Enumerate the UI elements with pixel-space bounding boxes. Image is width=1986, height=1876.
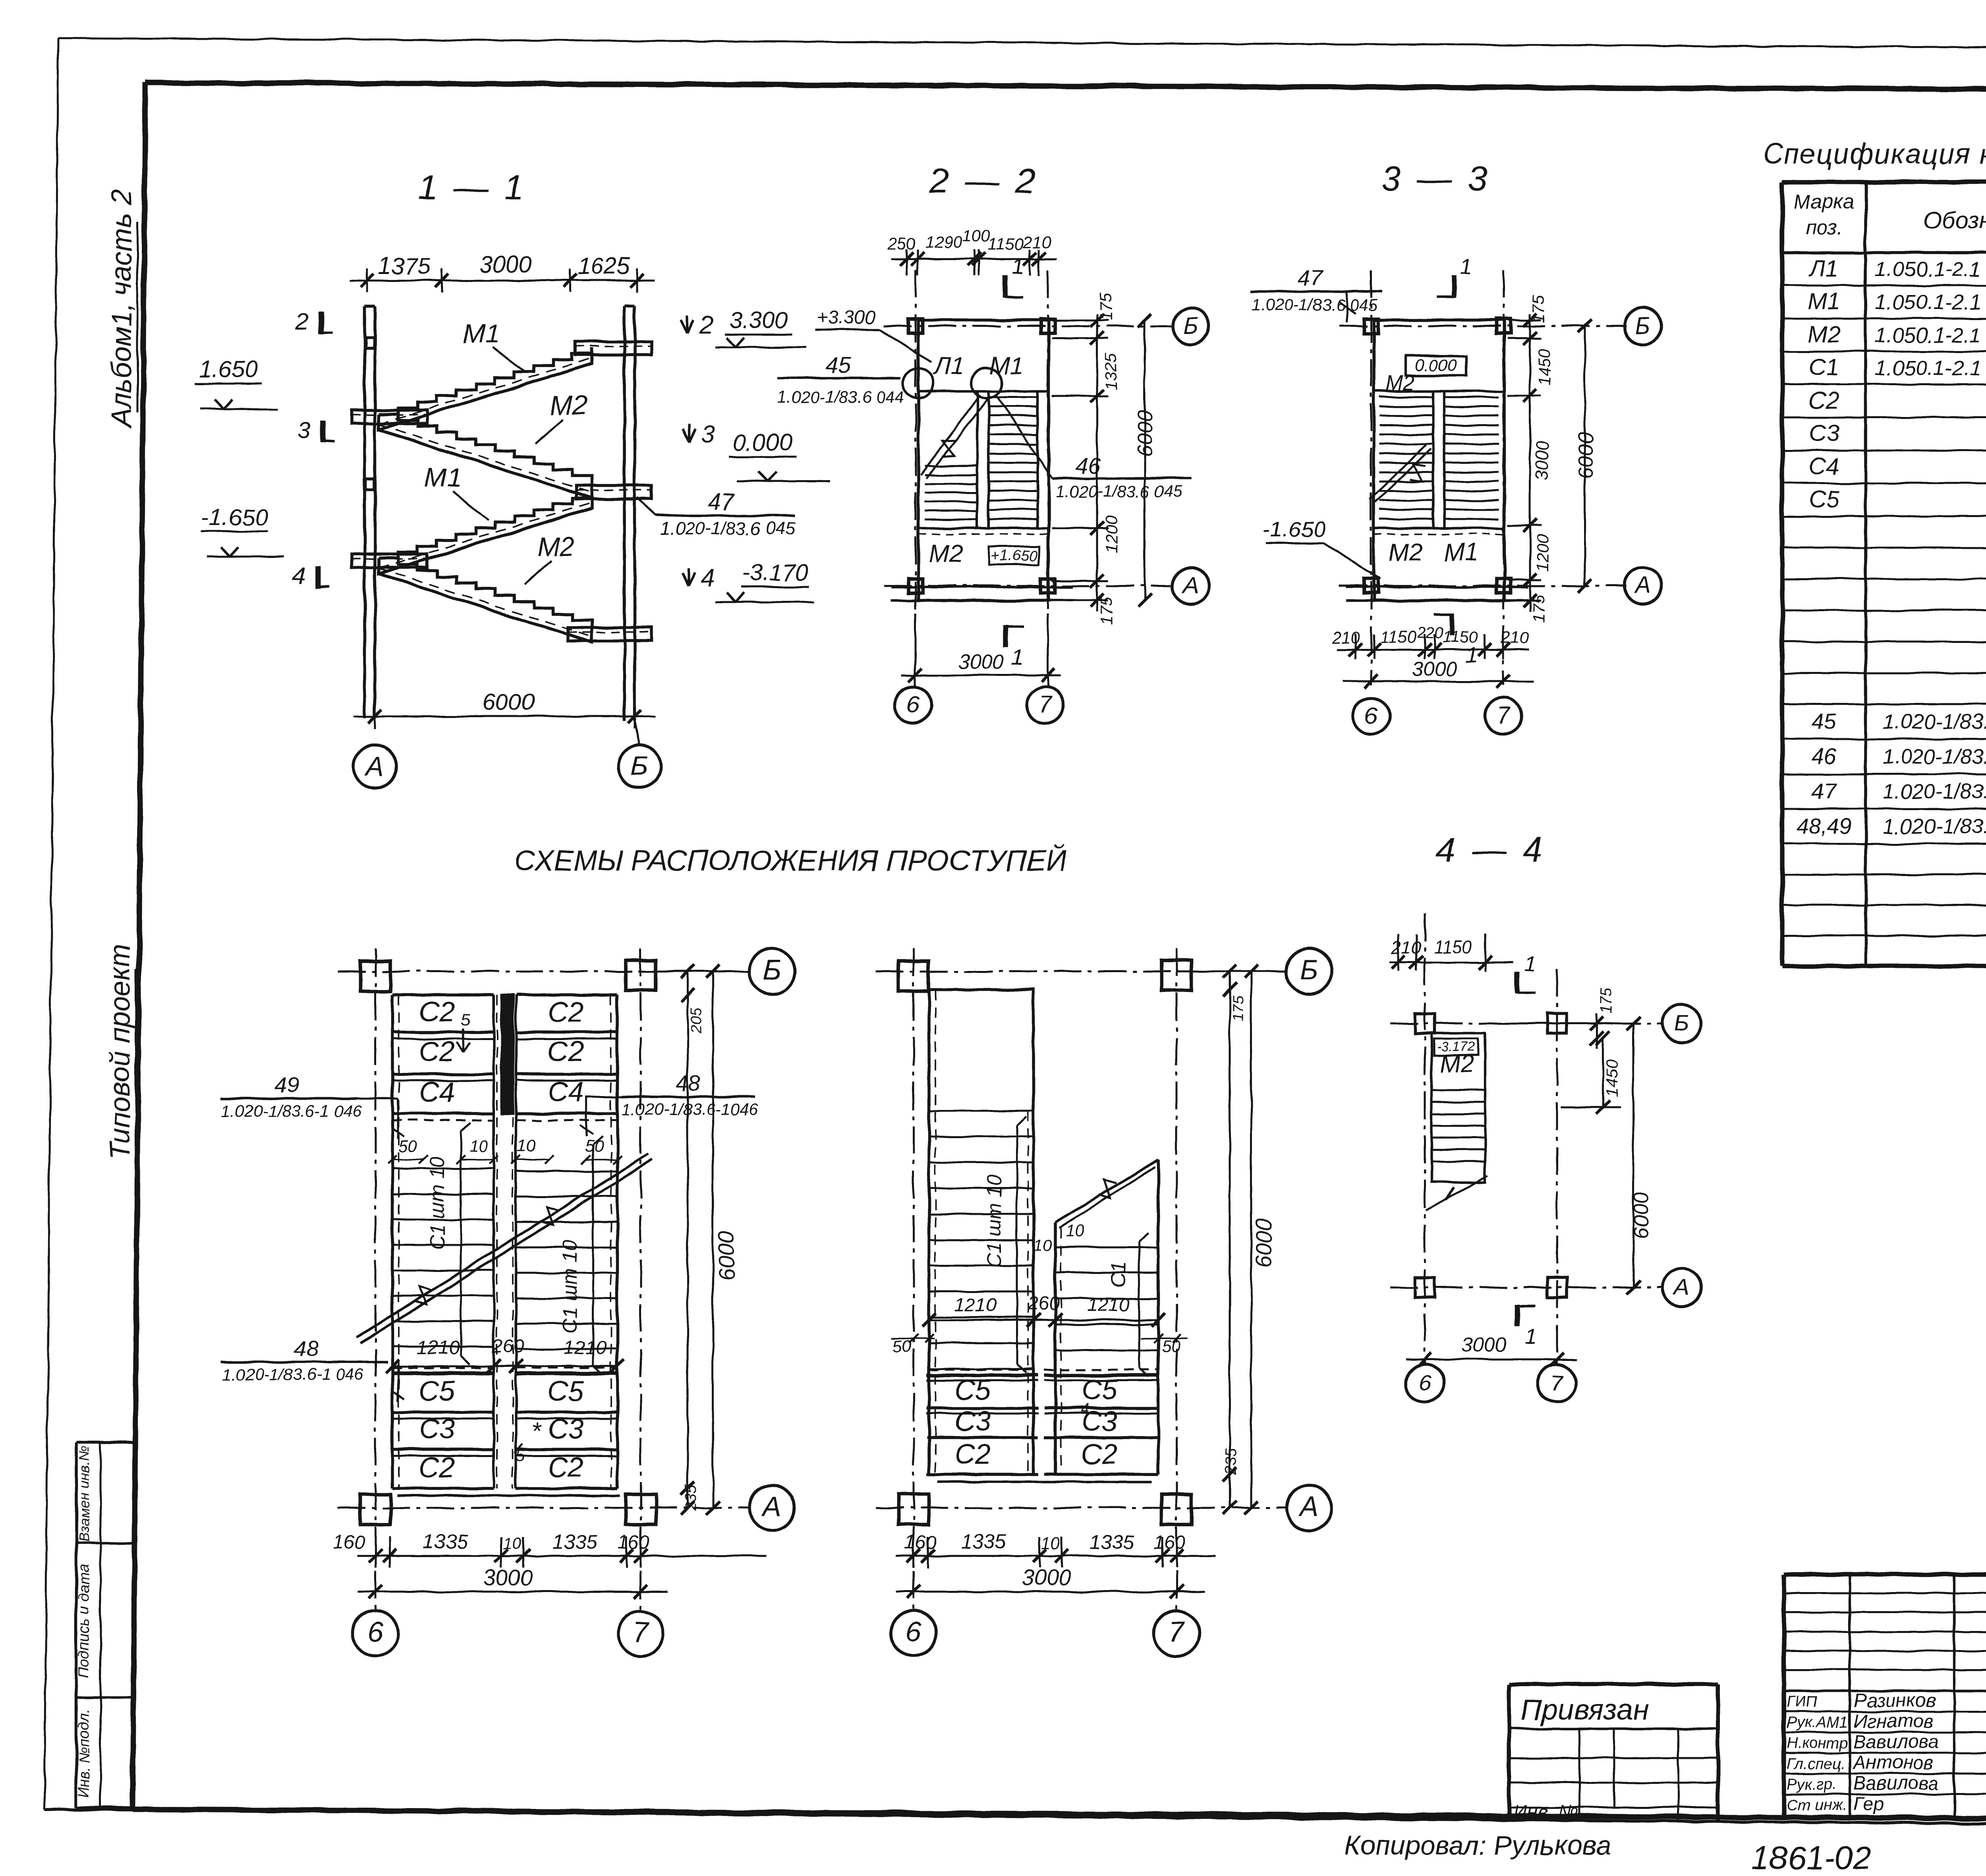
svg-text:1150: 1150 bbox=[1442, 627, 1478, 646]
svg-text:210: 210 bbox=[1331, 628, 1360, 647]
svg-text:1.050.1-2.1 05. 0.000: 1.050.1-2.1 05. 0.000 bbox=[1875, 291, 1986, 314]
svg-text:Разинков: Разинков bbox=[1853, 1690, 1936, 1711]
svg-text:6: 6 bbox=[907, 691, 920, 718]
svg-text:1.020-1/83.6 044: 1.020-1/83.6 044 bbox=[778, 388, 904, 406]
svg-text:С2: С2 bbox=[1082, 1439, 1118, 1470]
svg-text:Копировал: Рулькова: Копировал: Рулькова bbox=[1345, 1830, 1611, 1861]
svg-text:10: 10 bbox=[1066, 1222, 1084, 1240]
svg-text:6: 6 bbox=[1418, 1370, 1431, 1395]
svg-text:4: 4 bbox=[292, 563, 305, 589]
svg-text:ГИП: ГИП bbox=[1787, 1693, 1818, 1710]
svg-text:1210: 1210 bbox=[954, 1295, 997, 1316]
svg-text:А: А bbox=[1182, 572, 1198, 598]
svg-text:Вавилова: Вавилова bbox=[1853, 1731, 1939, 1752]
svg-text:6000: 6000 bbox=[1251, 1218, 1276, 1268]
svg-text:175: 175 bbox=[1529, 594, 1548, 622]
svg-text:Гл.спец.: Гл.спец. bbox=[1787, 1755, 1845, 1772]
svg-text:М2: М2 bbox=[550, 390, 587, 421]
svg-text:250: 250 bbox=[887, 234, 916, 253]
svg-text:СХЕМЫ РАСПОЛОЖЕНИЯ ПРОСТУПЕ: СХЕМЫ РАСПОЛОЖЕНИЯ ПРОСТУПЕЙ bbox=[514, 844, 1067, 877]
svg-text:С4: С4 bbox=[419, 1077, 455, 1108]
svg-text:поз.: поз. bbox=[1805, 216, 1843, 239]
svg-text:С4: С4 bbox=[548, 1077, 584, 1108]
svg-text:1.020-1/83.6-1046: 1.020-1/83.6-1046 bbox=[622, 1100, 758, 1119]
svg-text:Н.контр.: Н.контр. bbox=[1787, 1735, 1852, 1752]
svg-text:50: 50 bbox=[1162, 1337, 1180, 1355]
svg-text:1210: 1210 bbox=[1088, 1295, 1130, 1316]
svg-text:М1: М1 bbox=[989, 352, 1024, 380]
svg-text:7: 7 bbox=[633, 1616, 649, 1648]
svg-text:1.020-1/83.6 045: 1.020-1/83.6 045 bbox=[660, 518, 796, 538]
svg-text:С2: С2 bbox=[955, 1439, 991, 1470]
svg-text:А: А bbox=[1298, 1491, 1318, 1522]
svg-text:3000: 3000 bbox=[483, 1565, 533, 1590]
svg-text:Л1: Л1 bbox=[933, 352, 965, 380]
svg-text:4: 4 bbox=[701, 565, 714, 592]
svg-text:+3.300: +3.300 bbox=[817, 307, 875, 328]
svg-text:Подпись и дата: Подпись и дата bbox=[76, 1564, 93, 1678]
svg-text:6000: 6000 bbox=[714, 1231, 739, 1281]
svg-text:Марка: Марка bbox=[1794, 190, 1854, 213]
svg-text:Спецификация к схеме рас: Спецификация к схеме расположения лестни… bbox=[1763, 139, 1986, 170]
svg-text:М2: М2 bbox=[1385, 371, 1415, 395]
svg-text:1.020-1/83.6-1 084: 1.020-1/83.6-1 084 bbox=[1883, 710, 1986, 733]
svg-text:Б: Б bbox=[631, 751, 648, 781]
svg-text:3000: 3000 bbox=[1532, 441, 1552, 481]
svg-text:1.050.1-2.1 17.0 00.0-02: 1.050.1-2.1 17.0 00.0-02 bbox=[1875, 258, 1986, 281]
svg-text:С1 шт 10: С1 шт 10 bbox=[558, 1240, 581, 1333]
svg-text:45: 45 bbox=[1812, 708, 1837, 733]
svg-text:Инв. №: Инв. № bbox=[1513, 1801, 1578, 1822]
svg-text:7: 7 bbox=[1497, 703, 1511, 729]
svg-text:1150: 1150 bbox=[1380, 627, 1416, 646]
svg-text:А: А bbox=[364, 751, 384, 781]
svg-text:210: 210 bbox=[1501, 628, 1529, 647]
svg-text:-1.650: -1.650 bbox=[201, 504, 267, 530]
svg-text:3000: 3000 bbox=[1022, 1565, 1071, 1590]
svg-text:1150: 1150 bbox=[1434, 937, 1472, 957]
svg-text:1335: 1335 bbox=[1090, 1531, 1135, 1553]
svg-text:М2: М2 bbox=[1808, 321, 1840, 347]
svg-text:1.020-1/83.6-1 084: 1.020-1/83.6-1 084 bbox=[1883, 745, 1986, 768]
svg-text:3 — 3: 3 — 3 bbox=[1381, 159, 1491, 198]
svg-text:1200: 1200 bbox=[1533, 534, 1552, 571]
svg-text:48,49: 48,49 bbox=[1796, 813, 1852, 838]
svg-text:1335: 1335 bbox=[961, 1531, 1006, 1553]
svg-text:4 — 4: 4 — 4 bbox=[1436, 830, 1546, 869]
svg-text:Альбом1, часть 2: Альбом1, часть 2 bbox=[106, 189, 137, 429]
svg-text:1.020-1/83.6-1 084: 1.020-1/83.6-1 084 bbox=[1883, 780, 1986, 803]
svg-text:1.020-1/83.6 045: 1.020-1/83.6 045 bbox=[1251, 295, 1377, 314]
svg-text:1861-02: 1861-02 bbox=[1752, 1840, 1871, 1876]
svg-text:С3: С3 bbox=[955, 1406, 991, 1437]
svg-text:100: 100 bbox=[962, 226, 991, 245]
svg-text:С3: С3 bbox=[1809, 420, 1839, 446]
svg-text:1335: 1335 bbox=[552, 1531, 597, 1553]
svg-text:1.020-1/83.6-1 084: 1.020-1/83.6-1 084 bbox=[1883, 815, 1986, 838]
svg-text:М2: М2 bbox=[1389, 539, 1423, 566]
svg-text:Л1: Л1 bbox=[1808, 255, 1838, 282]
svg-text:0.000: 0.000 bbox=[1415, 356, 1457, 374]
svg-text:Типовой проект: Типовой проект bbox=[104, 944, 136, 1160]
svg-text:М2: М2 bbox=[929, 540, 963, 567]
svg-text:Вавилова: Вавилова bbox=[1853, 1773, 1939, 1794]
svg-text:М1: М1 bbox=[1808, 288, 1840, 315]
svg-text:160: 160 bbox=[618, 1532, 649, 1553]
svg-text:С2: С2 bbox=[419, 996, 455, 1028]
svg-text:260: 260 bbox=[492, 1336, 524, 1357]
svg-text:220: 220 bbox=[1416, 624, 1443, 641]
svg-text:2: 2 bbox=[295, 309, 309, 335]
svg-text:1150: 1150 bbox=[988, 234, 1024, 253]
svg-text:1625: 1625 bbox=[578, 253, 630, 279]
svg-text:4: 4 bbox=[1080, 1401, 1089, 1418]
svg-text:10: 10 bbox=[503, 1534, 522, 1552]
svg-text:С2: С2 bbox=[548, 1452, 584, 1483]
svg-text:1450: 1450 bbox=[1602, 1060, 1621, 1097]
svg-text:Инв. №подл.: Инв. №подл. bbox=[76, 1708, 93, 1798]
svg-text:М2: М2 bbox=[1440, 1050, 1474, 1078]
svg-text:Б: Б bbox=[1635, 313, 1650, 339]
svg-text:0.000: 0.000 bbox=[733, 429, 792, 455]
svg-text:+1.650: +1.650 bbox=[991, 548, 1037, 564]
svg-text:47: 47 bbox=[708, 489, 735, 515]
svg-text:С1 шт 10: С1 шт 10 bbox=[983, 1174, 1005, 1268]
svg-text:160: 160 bbox=[1153, 1532, 1185, 1553]
svg-text:А: А bbox=[1673, 1274, 1689, 1299]
svg-text:7: 7 bbox=[1039, 691, 1053, 718]
svg-text:С1: С1 bbox=[1107, 1261, 1130, 1288]
svg-text:С1 шт 10: С1 шт 10 bbox=[426, 1156, 448, 1250]
svg-text:Гер: Гер bbox=[1853, 1793, 1884, 1814]
svg-text:1: 1 bbox=[1011, 645, 1024, 670]
svg-text:2: 2 bbox=[699, 312, 713, 339]
svg-text:6: 6 bbox=[367, 1616, 383, 1648]
svg-text:1.050.1-2.1 06. 0.000: 1.050.1-2.1 06. 0.000 bbox=[1875, 324, 1986, 347]
svg-text:С5: С5 bbox=[548, 1376, 584, 1407]
svg-text:1: 1 bbox=[1524, 952, 1536, 975]
svg-text:3: 3 bbox=[701, 421, 715, 448]
svg-text:160: 160 bbox=[905, 1532, 937, 1553]
svg-text:С5: С5 bbox=[419, 1376, 455, 1407]
svg-text:45: 45 bbox=[826, 352, 851, 377]
svg-text:Обозначение: Обозначение bbox=[1924, 207, 1986, 234]
svg-text:3: 3 bbox=[298, 417, 311, 444]
svg-text:1375: 1375 bbox=[378, 253, 430, 279]
svg-text:1325: 1325 bbox=[1102, 353, 1121, 390]
svg-text:160: 160 bbox=[333, 1532, 365, 1553]
svg-text:Рук.АМ1: Рук.АМ1 bbox=[1787, 1714, 1848, 1731]
svg-text:Рук.гр.: Рук.гр. bbox=[1787, 1776, 1837, 1793]
svg-text:10: 10 bbox=[517, 1137, 536, 1155]
svg-text:С1: С1 bbox=[1809, 354, 1839, 380]
svg-text:50: 50 bbox=[893, 1337, 912, 1355]
svg-text:С3: С3 bbox=[419, 1414, 455, 1445]
svg-text:М1: М1 bbox=[463, 319, 500, 349]
svg-text:6: 6 bbox=[906, 1616, 922, 1648]
svg-text:1.020-1/83.6 045: 1.020-1/83.6 045 bbox=[1056, 482, 1182, 501]
svg-text:С5: С5 bbox=[1809, 486, 1839, 512]
svg-text:6: 6 bbox=[1365, 703, 1378, 729]
svg-text:7: 7 bbox=[1551, 1370, 1564, 1395]
svg-text:7: 7 bbox=[1169, 1616, 1185, 1648]
svg-text:1290: 1290 bbox=[925, 233, 962, 251]
svg-text:49: 49 bbox=[274, 1072, 299, 1097]
svg-text:1200: 1200 bbox=[1102, 515, 1121, 553]
svg-text:175: 175 bbox=[1230, 996, 1247, 1021]
svg-text:3000: 3000 bbox=[1412, 658, 1457, 680]
svg-text:С2: С2 bbox=[1809, 387, 1839, 413]
svg-text:1335: 1335 bbox=[423, 1531, 468, 1553]
svg-text:50: 50 bbox=[399, 1137, 417, 1155]
svg-text:10: 10 bbox=[1034, 1236, 1052, 1255]
svg-text:205: 205 bbox=[688, 1007, 705, 1034]
svg-text:1.050.1-2.1 18.0.000-01: 1.050.1-2.1 18.0.000-01 bbox=[1875, 357, 1986, 380]
svg-text:1: 1 bbox=[1525, 1325, 1536, 1349]
svg-text:6000: 6000 bbox=[1574, 432, 1598, 479]
svg-text:210: 210 bbox=[1391, 938, 1421, 958]
svg-text:175: 175 bbox=[1096, 292, 1115, 320]
svg-text:С4: С4 bbox=[1809, 453, 1839, 479]
svg-text:Взамен инв.№: Взамен инв.№ bbox=[76, 1446, 92, 1542]
svg-text:Б: Б bbox=[1183, 313, 1198, 339]
svg-text:46: 46 bbox=[1812, 743, 1837, 768]
svg-text:А: А bbox=[761, 1491, 781, 1522]
svg-text:1.020-1/83.6-1 046: 1.020-1/83.6-1 046 bbox=[222, 1365, 364, 1384]
svg-text:1: 1 bbox=[1460, 254, 1472, 279]
svg-text:1210: 1210 bbox=[564, 1338, 607, 1359]
svg-text:Игнатов: Игнатов bbox=[1853, 1711, 1934, 1732]
svg-text:-3.170: -3.170 bbox=[742, 560, 808, 586]
svg-text:Б: Б bbox=[1675, 1010, 1689, 1035]
svg-text:47: 47 bbox=[1812, 778, 1837, 803]
svg-text:Антонов: Антонов bbox=[1852, 1752, 1934, 1773]
svg-text:260: 260 bbox=[1027, 1293, 1059, 1314]
svg-text:С2: С2 bbox=[419, 1452, 455, 1483]
svg-text:10: 10 bbox=[1041, 1534, 1060, 1552]
svg-text:175: 175 bbox=[1529, 295, 1548, 323]
svg-text:3000: 3000 bbox=[958, 650, 1003, 673]
svg-text:1450: 1450 bbox=[1535, 348, 1553, 386]
svg-text:С2: С2 bbox=[419, 1036, 455, 1067]
svg-text:Ст инж.: Ст инж. bbox=[1787, 1797, 1847, 1814]
svg-text:6000: 6000 bbox=[1133, 410, 1157, 457]
svg-text:А: А bbox=[1634, 572, 1650, 598]
svg-text:48: 48 bbox=[294, 1336, 318, 1361]
svg-text:М1: М1 bbox=[424, 463, 462, 493]
svg-text:М2: М2 bbox=[537, 532, 575, 562]
svg-text:10: 10 bbox=[469, 1137, 488, 1155]
svg-text:3000: 3000 bbox=[479, 251, 531, 278]
svg-text:175: 175 bbox=[1598, 988, 1615, 1013]
svg-text:210: 210 bbox=[1022, 233, 1051, 251]
svg-text:С5: С5 bbox=[955, 1374, 991, 1406]
svg-text:М1: М1 bbox=[1444, 539, 1478, 566]
svg-text:47: 47 bbox=[1298, 265, 1324, 290]
svg-text:50: 50 bbox=[585, 1137, 604, 1155]
svg-text:*: * bbox=[531, 1417, 542, 1445]
svg-text:2 — 2: 2 — 2 bbox=[929, 161, 1039, 201]
svg-text:175: 175 bbox=[1097, 596, 1116, 625]
svg-text:1: 1 bbox=[1011, 254, 1024, 279]
svg-text:1.650: 1.650 bbox=[199, 356, 258, 382]
svg-text:5: 5 bbox=[461, 1010, 470, 1029]
svg-text:-1.650: -1.650 bbox=[1263, 517, 1326, 542]
svg-text:3000: 3000 bbox=[1461, 1334, 1506, 1356]
svg-text:6000: 6000 bbox=[482, 689, 534, 715]
svg-text:3.300: 3.300 bbox=[729, 307, 788, 333]
svg-text:235: 235 bbox=[1223, 1448, 1240, 1475]
svg-text:1 — 1: 1 — 1 bbox=[418, 168, 527, 207]
svg-text:Привязан: Привязан bbox=[1520, 1694, 1649, 1726]
svg-text:Б: Б bbox=[1300, 954, 1318, 986]
svg-text:Б: Б bbox=[763, 954, 781, 986]
svg-text:С2: С2 bbox=[548, 1036, 584, 1067]
svg-text:С3: С3 bbox=[548, 1414, 584, 1445]
svg-text:1210: 1210 bbox=[417, 1338, 460, 1359]
svg-text:С2: С2 bbox=[548, 996, 584, 1028]
svg-text:1.020-1/83.6-1 046: 1.020-1/83.6-1 046 bbox=[221, 1102, 362, 1120]
svg-text:6000: 6000 bbox=[1630, 1192, 1653, 1239]
svg-text:235: 235 bbox=[682, 1485, 699, 1511]
